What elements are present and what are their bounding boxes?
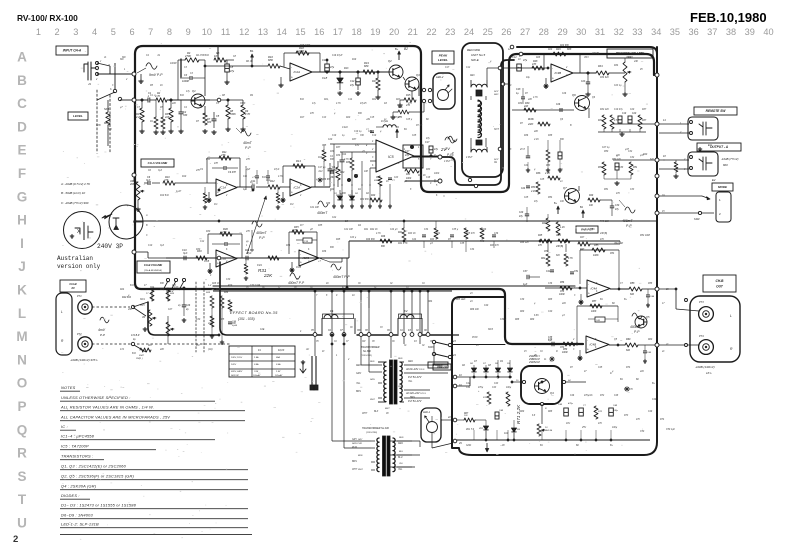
transistor Q7 xyxy=(565,189,580,204)
svg-text:L: L xyxy=(730,314,732,318)
svg-text:R33: R33 xyxy=(426,169,431,171)
svg-text:WHT: WHT xyxy=(370,399,375,401)
svg-text:400mT P-P: 400mT P-P xyxy=(333,275,350,279)
wire record head cable inner xyxy=(441,60,514,185)
svg-text:BLU: BLU xyxy=(398,457,403,459)
svg-text:R10: R10 xyxy=(182,176,187,178)
svg-text:D6~D9 : 1N4003: D6~D9 : 1N4003 xyxy=(61,513,94,518)
wire Q1 out to IC2A xyxy=(252,65,268,67)
LED-1 lamp xyxy=(427,422,438,433)
svg-text:R42 1K: R42 1K xyxy=(370,228,378,231)
svg-text:C13: C13 xyxy=(322,117,327,119)
resistor R4 270K xyxy=(185,58,199,62)
svg-text:1000: 1000 xyxy=(434,173,440,175)
svg-text:4.7K: 4.7K xyxy=(376,232,381,235)
svg-text:-: - xyxy=(291,65,292,69)
wire B+ rail xyxy=(135,220,650,222)
svg-text:C42: C42 xyxy=(466,382,471,385)
svg-text:R45: R45 xyxy=(336,238,341,241)
svg-text:R58: R58 xyxy=(630,282,635,285)
PT2 secondary wires extended xyxy=(390,440,420,442)
capacitor C38 input b xyxy=(551,342,553,346)
svg-text:1: 1 xyxy=(36,27,41,37)
svg-text:R24: R24 xyxy=(120,288,125,291)
svg-text:REC: REC xyxy=(494,94,499,96)
svg-text:27K: 27K xyxy=(245,159,251,161)
svg-text:C21 10P: C21 10P xyxy=(310,207,319,209)
wire IC4B out xyxy=(609,344,625,346)
ground IC4B xyxy=(579,356,581,358)
svg-text:R25: R25 xyxy=(220,319,225,321)
svg-text:1.6A: 1.6A xyxy=(254,356,259,359)
resistor cluster chb right xyxy=(210,296,214,308)
svg-text:C18: C18 xyxy=(322,76,328,80)
transformer PT1 xyxy=(384,362,386,402)
resistor R12 xyxy=(268,185,280,189)
svg-text:R74: R74 xyxy=(626,366,631,369)
svg-text:ALL CAPACITOR VALUES ARE IN MI: ALL CAPACITOR VALUES ARE IN MICROFARADS … xyxy=(60,415,170,420)
wire record unit pin stubs xyxy=(503,83,509,85)
svg-text:23: 23 xyxy=(445,27,455,37)
wire lower input row xyxy=(166,257,349,259)
node bus tap CH-B xyxy=(132,250,136,254)
svg-text:NOT: NOT xyxy=(494,91,499,93)
svg-text:R34 620: R34 620 xyxy=(600,76,609,79)
supply arrows q7 section xyxy=(557,206,559,214)
svg-text:IC1~4 : µPC4558: IC1~4 : µPC4558 xyxy=(61,434,95,439)
svg-text:R41: R41 xyxy=(364,228,369,231)
svg-text:C42: C42 xyxy=(466,386,471,389)
svg-text:BWT: BWT xyxy=(385,408,390,410)
capacitor C8 electrolytic xyxy=(225,64,230,72)
signal 400mT P-P q7 xyxy=(625,207,635,213)
label box MODE xyxy=(712,183,733,191)
svg-text:C10: C10 xyxy=(148,245,153,247)
svg-text:HHP-04: HHP-04 xyxy=(545,429,553,432)
svg-text:1K L: 1K L xyxy=(706,371,712,375)
svg-text:3µ3: 3µ3 xyxy=(146,179,151,182)
transistor Q5 near ic4b xyxy=(635,316,647,328)
svg-text:26: 26 xyxy=(501,27,511,37)
svg-text:C22: C22 xyxy=(332,217,337,219)
svg-text:IC2B: IC2B xyxy=(303,256,310,260)
svg-text:25: 25 xyxy=(483,27,493,37)
LED-2 lamp xyxy=(438,90,449,101)
svg-text:R39: R39 xyxy=(336,155,341,157)
capacitor C24 xyxy=(526,185,530,187)
svg-text:CH-B VOLUME: CH-B VOLUME xyxy=(144,263,163,267)
svg-text:3µ3: 3µ3 xyxy=(183,252,188,255)
svg-text:R18 220K: R18 220K xyxy=(300,45,311,47)
svg-text:R50: R50 xyxy=(604,151,609,153)
svg-text:100V, 115V: 100V, 115V xyxy=(231,357,243,359)
svg-text:47µ: 47µ xyxy=(434,148,439,151)
svg-text:C39: C39 xyxy=(520,299,525,301)
op-amp IC5 power amplifier xyxy=(376,140,414,172)
svg-text:WHT: WHT xyxy=(352,469,358,471)
svg-text:40mT: 40mT xyxy=(243,141,253,145)
svg-text:C15: C15 xyxy=(370,117,375,119)
svg-text:R41: R41 xyxy=(398,231,403,234)
label box PWR 2.R xyxy=(433,364,451,370)
svg-text:SW3: SW3 xyxy=(428,346,434,349)
svg-text:SW3: SW3 xyxy=(488,329,494,331)
svg-text:P-P: P-P xyxy=(259,236,265,240)
svg-text:220V, 240V: 220V, 240V xyxy=(230,370,243,373)
transformer PT1 secondary wires xyxy=(404,364,448,366)
wire erase drive xyxy=(405,180,420,182)
svg-text:R65 LED: R65 LED xyxy=(456,299,466,301)
svg-text:C30: C30 xyxy=(226,279,231,281)
svg-text:14: 14 xyxy=(277,27,287,37)
capacitor C29 47u xyxy=(525,213,529,215)
svg-text:R54: R54 xyxy=(548,196,553,199)
svg-text:820: 820 xyxy=(626,349,631,352)
svg-text:C2E: C2E xyxy=(260,329,265,331)
signal 400mT arrow diagonal xyxy=(247,196,266,254)
svg-text:VR: VR xyxy=(142,317,146,319)
transistor Q6 xyxy=(575,96,590,111)
svg-text:470µ/16: 470µ/16 xyxy=(584,394,593,397)
svg-text:R55: R55 xyxy=(594,244,599,247)
capacitor C26 2u xyxy=(182,304,186,306)
signal 400mT P-P left-mid xyxy=(331,264,341,270)
more junction dots xyxy=(252,189,254,191)
svg-text:R57: R57 xyxy=(592,301,597,303)
svg-text:C19 1µ: C19 1µ xyxy=(354,131,362,133)
wire mode rows xyxy=(659,195,702,197)
svg-text:R13: R13 xyxy=(344,67,349,70)
svg-text:68K: 68K xyxy=(108,129,113,131)
resistor R1 2.2K xyxy=(140,108,144,122)
svg-text:(Y22-0761): (Y22-0761) xyxy=(361,355,372,357)
svg-text:C33: C33 xyxy=(619,167,624,169)
resistor R70 xyxy=(487,392,491,404)
ground chb xyxy=(144,327,146,329)
svg-text:P: P xyxy=(452,151,454,155)
svg-text:7: 7 xyxy=(148,27,153,37)
svg-text:39: 39 xyxy=(745,27,755,37)
svg-text:E: E xyxy=(17,143,26,158)
svg-text:-10dB (140mV) 37K L: -10dB (140mV) 37K L xyxy=(70,358,98,362)
svg-text:24K: 24K xyxy=(633,60,639,63)
svg-text:SW1: SW1 xyxy=(196,289,202,291)
svg-text:330K: 330K xyxy=(230,113,236,116)
resistor R9 2.7K xyxy=(241,105,245,119)
svg-text:47K: 47K xyxy=(532,63,537,66)
svg-text:C25: C25 xyxy=(524,197,529,199)
svg-text:Q4 : 2SK30A (GR): Q4 : 2SK30A (GR) xyxy=(61,484,97,489)
svg-text:R14: R14 xyxy=(342,153,347,156)
feedback R57 loop2 xyxy=(577,305,618,307)
capacitor C23 xyxy=(586,81,590,83)
feedback IC2A lower xyxy=(283,165,315,167)
svg-text:22K: 22K xyxy=(263,273,273,278)
resistor R30 22K lower xyxy=(196,256,207,260)
ground cluster chb xyxy=(211,334,213,336)
capacitor C36 2u99 xyxy=(228,321,232,323)
svg-text:24K(B): 24K(B) xyxy=(599,232,607,235)
svg-text:10µ: 10µ xyxy=(526,77,531,79)
signal 2V P-P xyxy=(445,137,455,143)
svg-text:240V 3P: 240V 3P xyxy=(97,243,123,250)
capacitor C6 xyxy=(147,181,149,185)
svg-text:B: -50dB (1mV) 1K: B: -50dB (1mV) 1K xyxy=(61,191,86,195)
wire mid rail xyxy=(349,240,620,242)
svg-text:R30: R30 xyxy=(196,249,201,251)
svg-text:R16: R16 xyxy=(398,106,403,109)
wire input to bus xyxy=(97,73,133,75)
svg-text:22K: 22K xyxy=(533,131,539,133)
svg-text:9mV P-P: 9mV P-P xyxy=(149,73,163,77)
svg-text:P-P: P-P xyxy=(100,333,105,337)
svg-text:B.R: B.R xyxy=(180,95,184,97)
resistor R47 row241 xyxy=(578,242,590,246)
wire head to pin xyxy=(486,68,488,80)
svg-text:P-P 54~67V: P-P 54~67V xyxy=(408,400,422,403)
svg-text:R12: R12 xyxy=(270,180,275,183)
feedback loop R11 27K xyxy=(207,157,240,159)
chb extra pot xyxy=(166,322,170,336)
op-amp IC1B xyxy=(216,250,237,267)
under op-amp parts IC2A xyxy=(276,193,280,203)
svg-text:GRY: GRY xyxy=(352,439,357,441)
svg-text:R44 220: R44 220 xyxy=(520,241,529,244)
svg-text:R73 470: R73 470 xyxy=(624,388,633,391)
svg-text:B.R: B.R xyxy=(132,353,136,355)
svg-text:400mT: 400mT xyxy=(256,231,267,235)
capacitor C1 xyxy=(147,98,149,103)
svg-text:9: 9 xyxy=(186,27,191,37)
fuse F2 xyxy=(397,318,399,334)
svg-text:version only: version only xyxy=(57,263,101,270)
svg-text:1.3Z: 1.3Z xyxy=(276,371,281,373)
svg-text:47µ: 47µ xyxy=(426,137,431,140)
svg-text:27K: 27K xyxy=(220,153,226,157)
svg-text:R47 470: R47 470 xyxy=(490,244,499,247)
svg-text:16: 16 xyxy=(314,27,324,37)
svg-text:R26: R26 xyxy=(160,289,165,291)
svg-text:4 PUT: 4 PUT xyxy=(466,156,473,159)
svg-text:R21: R21 xyxy=(324,99,329,101)
svg-text:C24: C24 xyxy=(412,238,417,241)
voltage table xyxy=(229,346,295,377)
svg-text:220K: 220K xyxy=(297,49,304,53)
svg-text:13: 13 xyxy=(258,27,268,37)
svg-text:4: 4 xyxy=(92,27,97,37)
resistor R46 820h xyxy=(616,155,618,157)
diodes D1 D2 bias xyxy=(337,196,342,200)
svg-text:270K: 270K xyxy=(184,54,191,58)
mode switch bracket xyxy=(716,192,731,222)
svg-text:120V: 120V xyxy=(231,364,237,366)
resistor R49 100 xyxy=(588,198,600,202)
svg-text:R27: R27 xyxy=(372,80,377,83)
svg-text:68K: 68K xyxy=(104,122,109,125)
svg-text:No.366: No.366 xyxy=(363,350,371,353)
svg-text:IC3B: IC3B xyxy=(555,71,562,75)
jack PT3 xyxy=(699,307,714,322)
svg-text:C28: C28 xyxy=(516,88,521,91)
svg-text:C40: C40 xyxy=(548,310,553,313)
svg-text:68K: 68K xyxy=(567,48,572,51)
svg-text:J1: J1 xyxy=(88,82,91,86)
resistor R58 820 xyxy=(629,287,642,291)
svg-text:REMOTE SW: REMOTE SW xyxy=(706,109,727,113)
signal 4mV P-P xyxy=(100,317,109,323)
svg-text:4.7K: 4.7K xyxy=(155,95,160,98)
svg-text:R59: R59 xyxy=(563,349,568,351)
svg-text:(CH-A REVERSE): (CH-A REVERSE) xyxy=(144,269,162,272)
wire regulator mid xyxy=(541,404,543,424)
svg-text:4 PUT: 4 PUT xyxy=(444,160,451,163)
svg-text:G: G xyxy=(17,189,28,204)
svg-text:FEB.10,1980: FEB.10,1980 xyxy=(690,10,767,25)
capacitor C45 xyxy=(643,350,647,352)
ground IC1B xyxy=(209,269,211,271)
svg-text:240V PUR: 240V PUR xyxy=(351,442,362,445)
svg-text:R12: R12 xyxy=(266,180,271,182)
LED-2 contacts xyxy=(422,88,425,91)
svg-text:17µ: 17µ xyxy=(312,103,317,105)
regulator box Q4 xyxy=(521,366,562,404)
svg-text:820: 820 xyxy=(630,293,635,296)
wire IC2A top output xyxy=(312,71,389,73)
resistor R53 227 xyxy=(536,182,540,194)
svg-text:R34: R34 xyxy=(286,244,291,247)
svg-text:.068: .068 xyxy=(330,177,335,179)
capacitor C14 xyxy=(356,78,361,85)
transistor Q4 xyxy=(535,379,550,394)
svg-text:C30: C30 xyxy=(615,205,620,207)
resistor R10 27K xyxy=(163,181,175,185)
wire record signal row xyxy=(503,67,548,69)
svg-text:100µ: 100µ xyxy=(506,387,512,389)
svg-text:19: 19 xyxy=(370,27,380,37)
signal level 9mV P-P xyxy=(146,63,157,69)
svg-text:D10: D10 xyxy=(504,433,509,435)
svg-text:OUT: OUT xyxy=(716,285,724,289)
label box PARPOT xyxy=(576,226,598,233)
svg-text:R33: R33 xyxy=(406,174,411,176)
svg-text:R23: R23 xyxy=(396,99,401,101)
svg-text:C25: C25 xyxy=(540,179,545,181)
svg-text:B.R: B.R xyxy=(205,55,209,57)
CH-B OUT bracket xyxy=(690,296,740,362)
svg-text:AC20~24V r.m.s: AC20~24V r.m.s xyxy=(405,368,425,371)
signal 400mT P-P at IC5 left xyxy=(318,201,328,207)
resistor R43 xyxy=(556,222,560,235)
svg-text:R37: R37 xyxy=(642,120,647,122)
svg-text:REC: REC xyxy=(470,75,475,77)
svg-text:P-P: P-P xyxy=(634,330,640,334)
svg-text:R36: R36 xyxy=(528,117,534,121)
svg-text:R50: R50 xyxy=(598,167,603,169)
svg-text:L: L xyxy=(61,310,63,314)
connector pins effect board xyxy=(313,333,317,337)
effect board inner verticals xyxy=(360,291,362,300)
svg-text:R36: R36 xyxy=(322,251,327,253)
svg-text:AC120~24V r.m.s: AC120~24V r.m.s xyxy=(405,392,426,395)
wire SW3 to shield corner xyxy=(452,344,505,346)
svg-text:330K: 330K xyxy=(240,103,246,105)
label box OUTPUT-A xyxy=(697,143,741,151)
resistor R28 47K xyxy=(532,66,544,70)
wire output-a rows xyxy=(659,159,689,161)
connector J1 phone jack xyxy=(84,62,97,80)
svg-text:T: T xyxy=(18,492,27,507)
wire vr4 rail continues xyxy=(619,241,621,244)
svg-text:Q5: Q5 xyxy=(646,315,650,319)
svg-text:0.7µH: 0.7µH xyxy=(394,117,401,119)
svg-text:RV-100/ RX-100: RV-100/ RX-100 xyxy=(17,13,78,23)
svg-text:R13: R13 xyxy=(296,159,301,163)
svg-text:C22: C22 xyxy=(354,175,359,177)
signal 400mT P-P mid xyxy=(252,221,262,227)
svg-text:0V: 0V xyxy=(386,413,389,415)
wire IC1A output xyxy=(237,186,252,188)
svg-text:RED: RED xyxy=(370,361,375,363)
junction dots scattered xyxy=(204,65,206,67)
svg-text:600: 600 xyxy=(723,163,728,167)
svg-text:1000P: 1000P xyxy=(182,80,190,83)
svg-text:R28 1K: R28 1K xyxy=(212,283,220,285)
svg-text:Q7: Q7 xyxy=(563,186,567,190)
svg-text:C30: C30 xyxy=(196,319,201,321)
svg-text:C19: C19 xyxy=(372,135,377,137)
svg-text:R46 680: R46 680 xyxy=(366,238,375,241)
resistor Q1 emitter xyxy=(203,113,207,125)
capacitor above IC5 xyxy=(370,130,374,132)
label box CH-B OUT xyxy=(703,275,736,292)
svg-text:U: U xyxy=(17,516,27,531)
svg-text:27K: 27K xyxy=(245,231,251,233)
svg-text:IC2B: IC2B xyxy=(296,267,302,269)
resistor R16 68R xyxy=(268,64,280,68)
inductor 0.7uH xyxy=(383,125,396,127)
svg-text:(1Ω): (1Ω) xyxy=(208,349,213,351)
svg-text:I: I xyxy=(20,236,24,251)
diode D9b xyxy=(511,428,516,432)
svg-text:PT1: PT1 xyxy=(77,295,82,298)
resistor network below Q6 xyxy=(602,115,606,129)
ground IC2A top xyxy=(280,83,282,85)
capacitor C12 47u xyxy=(517,64,522,71)
svg-text:RED: RED xyxy=(399,437,404,439)
svg-text:MODE: MODE xyxy=(718,185,728,189)
svg-text:C33: C33 xyxy=(630,189,635,191)
wire pin9 line xyxy=(405,180,438,182)
svg-text:C29: C29 xyxy=(519,212,524,214)
star junction 2 xyxy=(549,358,555,360)
svg-text:R52 1008: R52 1008 xyxy=(640,235,651,237)
svg-text:S: S xyxy=(17,469,26,484)
svg-text:R68: R68 xyxy=(548,411,553,413)
svg-text:R45: R45 xyxy=(538,234,543,237)
svg-text:R37: R37 xyxy=(642,109,647,111)
svg-text:-: - xyxy=(587,338,588,342)
resistor bias row xyxy=(370,198,382,202)
capacitor C17 output xyxy=(429,146,433,153)
resistor divider output-a xyxy=(674,162,678,172)
svg-text:R24 B.R: R24 B.R xyxy=(122,296,131,299)
svg-text:YEL: YEL xyxy=(408,381,413,383)
transistor Q1 xyxy=(191,94,205,108)
wire pin risers up xyxy=(314,291,316,333)
svg-text:100µ: 100µ xyxy=(613,410,619,412)
svg-text:B1: B1 xyxy=(250,49,254,53)
op-amp IC4A xyxy=(587,280,610,297)
